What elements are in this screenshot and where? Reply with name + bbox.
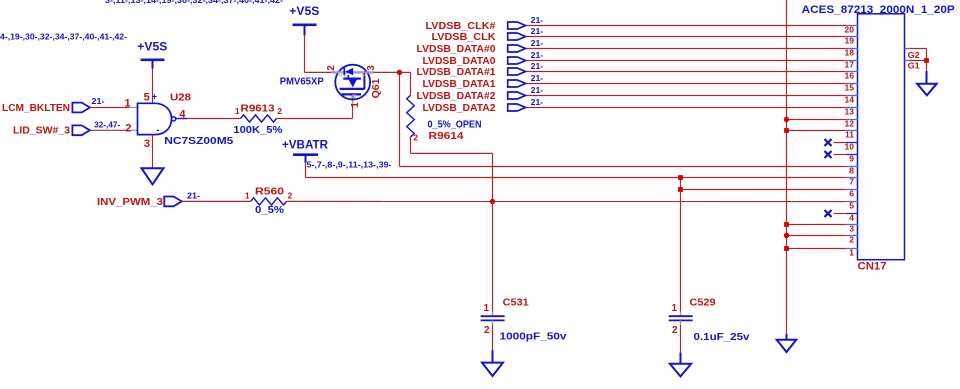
Q61 source arrow	[349, 79, 358, 87]
ground (GND net)	[777, 340, 797, 352]
wire GND net to CN17 pin 2	[787, 235, 846, 237]
svg-text:CN17: CN17	[858, 261, 887, 273]
pin stub 8	[846, 166, 858, 168]
svg-text:LVDSB_DATA2: LVDSB_DATA2	[423, 103, 496, 114]
Q61 pin origin marks	[339, 73, 342, 76]
svg-text:21-: 21-	[531, 39, 544, 48]
wire GND net vertical (from off-page top)	[786, 0, 788, 334]
svg-text:LVDSB_DATA1: LVDSB_DATA1	[423, 79, 496, 90]
port LVDSB_CLK	[508, 33, 526, 40]
svg-text:PMV65XP: PMV65XP	[280, 75, 324, 87]
port LVDSB_DATA#0	[508, 45, 526, 52]
svg-text:1: 1	[235, 106, 240, 116]
svg-text:21-: 21-	[531, 74, 544, 83]
svg-text:R560: R560	[255, 185, 284, 197]
resistor R9614 0_5%_OPEN	[407, 95, 415, 137]
wire junction to CN17 pin 6	[681, 189, 846, 191]
svg-text:LVDSB_DATA0: LVDSB_DATA0	[423, 56, 496, 67]
svg-text:1: 1	[245, 191, 250, 201]
svg-text:14: 14	[845, 95, 855, 105]
wire LVDSB_CLK to CN17 pin 19	[526, 36, 846, 38]
svg-text:3: 3	[366, 65, 377, 71]
svg-text:17: 17	[845, 60, 855, 70]
pin stub 20	[846, 25, 858, 27]
svg-text:LVDSB_DATA#2: LVDSB_DATA#2	[417, 91, 496, 102]
svg-text:3: 3	[144, 138, 150, 150]
wire to ground	[926, 61, 928, 71]
svg-text:ACES_87213_2000N_1_20P: ACES_87213_2000N_1_20P	[802, 4, 955, 16]
U28 output pin stub	[176, 118, 187, 120]
transistor Q61 PMV65XP (P-MOSFET)	[335, 65, 370, 100]
ground (CN17 shield)	[917, 84, 937, 96]
svg-text:21-: 21-	[531, 51, 544, 60]
wire LCM_BKLTEN to U28 pin 1	[90, 107, 129, 109]
svg-text:2: 2	[413, 133, 418, 143]
svg-text:2: 2	[672, 325, 678, 336]
svg-text:2: 2	[277, 106, 282, 116]
svg-text:G1: G1	[908, 60, 920, 70]
wire +VBATR net down to C529	[680, 178, 682, 312]
pin stub 10	[846, 142, 858, 144]
wire LVDSB_DATA#1 to CN17 pin 16	[526, 71, 846, 73]
wire LID_SW#_3 to U28 pin 2	[90, 129, 127, 131]
svg-text:2: 2	[484, 325, 490, 336]
pin stub 7	[846, 177, 858, 179]
capacitor C529 0.1uF_25v	[680, 312, 682, 317]
svg-text:1: 1	[672, 303, 678, 314]
svg-text:INV_PWM_3: INV_PWM_3	[97, 196, 163, 208]
svg-text:21-: 21-	[531, 27, 544, 36]
pin stub 12	[846, 119, 858, 121]
svg-text:C531: C531	[503, 297, 529, 309]
port LVDSB_DATA#1	[508, 68, 526, 75]
pin stub 2	[846, 235, 858, 237]
svg-text:Q61: Q61	[370, 78, 382, 98]
svg-text:-: -	[156, 125, 159, 136]
svg-text:LID_SW#_3: LID_SW#_3	[13, 125, 70, 137]
pin stub 16	[846, 71, 858, 73]
ground (U28)	[142, 168, 164, 184]
wire no-connect stub pin 4	[834, 213, 846, 215]
svg-text:+V5S: +V5S	[289, 6, 319, 18]
wire Q61 drain to junction	[374, 71, 400, 73]
pin stub 3	[846, 224, 858, 226]
wire +VBATR down and right to CN17 pin 7	[305, 162, 307, 178]
Q61 channel bar	[340, 88, 365, 90]
pin stub 1	[846, 248, 858, 250]
svg-text:2: 2	[288, 191, 293, 201]
resistor R9613 100K_5%	[241, 115, 277, 122]
node C531 tap junction	[490, 199, 495, 204]
pin stub 18	[846, 48, 858, 50]
svg-text:1000pF_50v: 1000pF_50v	[500, 330, 567, 342]
svg-text:+V5S: +V5S	[137, 42, 167, 54]
wire no-connect stub pin 9	[834, 154, 846, 156]
svg-text:LVDSB_DATA#0: LVDSB_DATA#0	[417, 44, 496, 55]
pin stub 14	[846, 95, 858, 97]
no-connect X pin 10	[825, 139, 832, 146]
svg-text:LVDSB_CLK#: LVDSB_CLK#	[426, 21, 496, 32]
svg-text:4: 4	[179, 108, 186, 120]
svg-text:1: 1	[124, 97, 130, 109]
svg-text:1: 1	[350, 102, 361, 108]
no-connect X pin 9	[825, 151, 832, 158]
svg-text:5-,7-,8-,9-,11-,13-,39-: 5-,7-,8-,9-,11-,13-,39-	[307, 160, 392, 169]
svg-text:11: 11	[845, 130, 854, 140]
node junction pin6	[678, 187, 683, 192]
U28 output inversion bubble	[172, 117, 176, 121]
svg-text:5: 5	[849, 201, 854, 211]
port LVDSB_DATA2	[508, 104, 526, 111]
pin stub 19	[846, 36, 858, 38]
svg-text:100K_5%: 100K_5%	[233, 124, 283, 136]
node junction pin7	[678, 175, 683, 180]
pin stub 11	[846, 130, 858, 132]
wire U28 pin3 to ground	[152, 135, 154, 168]
node junction pin 3	[784, 222, 789, 227]
wire LVDSB_DATA1 to CN17 pin 15	[526, 83, 846, 85]
svg-text:3-,11-,13-,14-,19-,30-,32-,34-: 3-,11-,13-,14-,19-,30-,32-,34-,37-,40-,4…	[105, 0, 283, 5]
connector CN17 ACES_87213_2000N_1_20P	[858, 14, 905, 260]
wire junction to R9614	[400, 71, 411, 73]
pin G2 stub	[905, 48, 912, 50]
wire INV_PWM_3 to R560	[182, 200, 251, 202]
svg-text:4: 4	[849, 213, 854, 223]
pin stub 5	[846, 201, 858, 203]
svg-text:NC7SZ00M5: NC7SZ00M5	[164, 135, 233, 147]
svg-text:8: 8	[849, 166, 854, 176]
svg-text:1: 1	[849, 248, 854, 258]
Q61 gate bar	[342, 93, 362, 95]
svg-text:13: 13	[845, 107, 855, 117]
svg-text:R9613: R9613	[241, 103, 275, 115]
svg-text:0_5%_OPEN: 0_5%_OPEN	[428, 119, 482, 131]
svg-text:3: 3	[849, 224, 854, 234]
pin stub 17	[846, 60, 858, 62]
wire LVDSB_DATA0 to CN17 pin 17	[526, 60, 846, 62]
Q61 body diode	[343, 68, 345, 76]
node Q61 drain junction	[397, 70, 402, 75]
svg-text:0.1uF_25v: 0.1uF_25v	[694, 331, 750, 343]
pin G2 wire	[910, 48, 927, 50]
wire R9614 bottom to INV_PWM net	[410, 137, 412, 153]
svg-text:2: 2	[326, 65, 337, 71]
svg-text:12: 12	[845, 119, 855, 129]
port LVDSB_DATA1	[508, 80, 526, 87]
wire R560 to CN17 pin 5	[287, 200, 846, 202]
pin G1 wire	[910, 60, 927, 62]
svg-text:U28: U28	[170, 91, 191, 103]
svg-text:16: 16	[845, 71, 855, 81]
svg-text:20: 20	[845, 25, 855, 35]
NAND gate U28 NC7SZ00M5	[138, 103, 172, 134]
node junction pin 2	[784, 233, 789, 238]
svg-text:4-,19-,30-,32-,34-,37-,40-,41-: 4-,19-,30-,32-,34-,37-,40-,41-,42-	[0, 32, 127, 41]
svg-text:21-: 21-	[187, 191, 200, 200]
wire U28 pin4 to R9613	[187, 118, 241, 120]
svg-text:18: 18	[845, 48, 855, 58]
wire GND net to CN17 pin 1	[787, 248, 846, 250]
svg-text:21-: 21-	[531, 62, 544, 71]
svg-text:21-: 21-	[531, 16, 544, 25]
svg-text:21-: 21-	[531, 86, 544, 95]
svg-text:6: 6	[849, 189, 854, 199]
wire R9613 to Q61 gate (pin 1)	[277, 118, 353, 120]
pin stub 13	[846, 107, 858, 109]
Q61 drain bar	[363, 72, 365, 89]
svg-text:5: 5	[144, 91, 150, 103]
svg-text:LVDSB_DATA#1: LVDSB_DATA#1	[417, 67, 496, 78]
svg-text:0_5%: 0_5%	[255, 204, 285, 216]
node junction pin 1	[784, 246, 789, 251]
svg-text:+: +	[152, 92, 157, 102]
wire no-connect stub pin 10	[834, 142, 846, 144]
svg-text:+VBATR: +VBATR	[282, 140, 329, 152]
wire LVDSB_DATA2 to CN17 pin 13	[526, 107, 846, 109]
svg-text:15: 15	[845, 83, 855, 93]
node junction G1/G2	[924, 58, 929, 63]
pin stub 9	[846, 154, 858, 156]
svg-text:21-: 21-	[531, 98, 544, 107]
svg-text:R9614: R9614	[429, 130, 464, 142]
wire LVDSB_CLK# to CN17 pin 20	[526, 25, 846, 27]
Q61 source-drain rail (pale)	[331, 71, 374, 73]
svg-text:32-,47-: 32-,47-	[94, 120, 120, 129]
svg-text:LCM_BKLTEN: LCM_BKLTEN	[2, 102, 70, 114]
capacitor C531 1000pF_50v	[492, 312, 494, 317]
svg-text:10: 10	[845, 142, 855, 152]
pin G1 stub	[905, 60, 912, 62]
svg-text:9: 9	[849, 154, 854, 164]
wire C531 to ground	[492, 325, 494, 350]
wire GND net to CN17 pin 12	[787, 119, 846, 121]
svg-text:7: 7	[849, 177, 854, 187]
port LVDSB_DATA0	[508, 57, 526, 64]
port LVDSB_DATA#2	[508, 92, 526, 99]
pin stub 6	[846, 189, 858, 191]
wire GND net to CN17 pin 3	[787, 224, 846, 226]
svg-text:2: 2	[849, 235, 854, 245]
svg-text:21-: 21-	[92, 97, 105, 106]
pin stub 15	[846, 83, 858, 85]
wire LVDSB_DATA#0 to CN17 pin 18	[526, 48, 846, 50]
resistor R560 0_5%	[251, 198, 287, 205]
wire +V5S to Q61 pin 2	[304, 35, 306, 72]
node junction pin 11	[784, 128, 789, 133]
wire junction down to CN17 pin 8 row	[399, 72, 401, 166]
svg-text:19: 19	[845, 36, 855, 46]
wire down to C531	[492, 202, 494, 312]
svg-text:LVDSB_CLK: LVDSB_CLK	[432, 32, 497, 43]
ground (C529)	[670, 364, 691, 377]
wire C529 to ground	[680, 325, 682, 353]
wire +V5S to U28 pin5	[152, 69, 154, 104]
svg-text:2: 2	[125, 122, 131, 134]
wire GND net to CN17 pin 11	[787, 130, 846, 132]
Q61 source bar	[343, 77, 361, 79]
svg-text:G2: G2	[908, 50, 920, 60]
node junction pin 12	[784, 117, 789, 122]
no-connect X pin 4	[825, 210, 832, 217]
svg-text:C529: C529	[690, 297, 716, 309]
pin stub 4	[846, 213, 858, 215]
ground (C531)	[482, 363, 503, 376]
wire LVDSB_DATA#2 to CN17 pin 14	[526, 95, 846, 97]
port LVDSB_CLK#	[508, 22, 526, 29]
svg-text:1: 1	[483, 303, 489, 314]
